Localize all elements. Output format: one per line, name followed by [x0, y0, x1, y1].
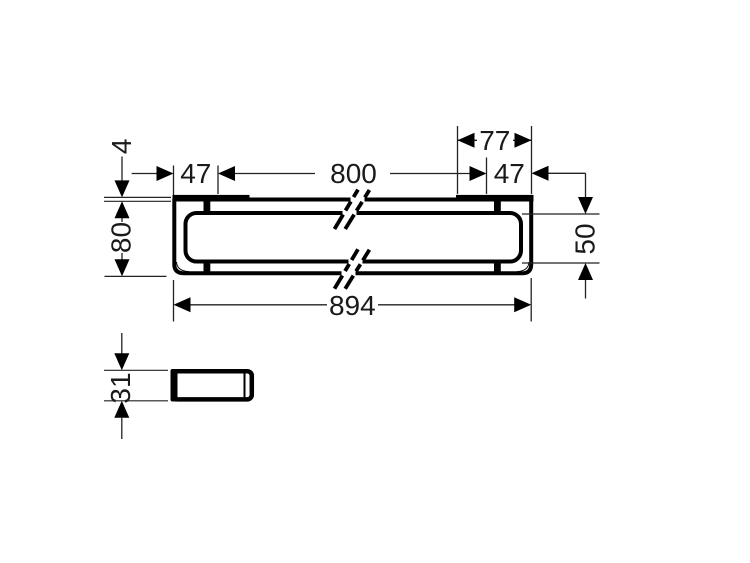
dim 31: lower tail line — [121, 418, 123, 439]
extension line E (77 left) — [457, 126, 459, 194]
side view: wall plate (left cap, filled) — [171, 369, 178, 402]
svg-text:4: 4 — [106, 139, 137, 155]
dim line 77 — [458, 139, 478, 141]
arrow right at D (77) — [515, 133, 532, 148]
dim 894: right extension line — [530, 278, 532, 322]
break gap whiteout upper rail — [343, 209, 357, 218]
break mark slashes lower — [335, 249, 359, 288]
extension line D (bar right edge, up) — [531, 126, 533, 194]
towel bar front view: mounting plate base strip — [173, 198, 534, 202]
dim 50: upper drop line — [585, 173, 587, 199]
bar body bottom-left fillet inner line — [177, 262, 190, 272]
dim 4: lower extension line (plate bottom) — [104, 200, 171, 202]
dim 31: upper extension line — [104, 369, 168, 371]
arrow left at B — [218, 166, 235, 181]
dim 50: down arrow to rail top — [578, 197, 593, 214]
dim 4: down arrow to plate top — [115, 180, 130, 197]
break mark slashes upper — [335, 190, 359, 229]
dim 894: line right segment — [378, 304, 515, 306]
arrow left at D — [532, 166, 549, 181]
break gap whiteout lower rail — [349, 258, 363, 267]
dim 80: line below upper arrow — [121, 218, 123, 222]
extension line A (bar left edge, up) — [173, 166, 175, 196]
bar body bottom-right fillet inner line — [517, 262, 529, 272]
break gap whiteout lower bottom — [342, 269, 356, 278]
svg-text:77: 77 — [479, 125, 510, 156]
dim line 800 left segment — [235, 173, 315, 175]
dim line 800 right segment — [390, 173, 471, 175]
left wall bracket post — [204, 199, 211, 274]
dim 50: upper extension line (rail top) — [522, 213, 600, 215]
dim 80: down arrow to bar bottom — [115, 259, 130, 276]
arrow left at E (77) — [458, 133, 475, 148]
svg-text:800: 800 — [330, 158, 377, 189]
dim 50: up arrow to rail bottom — [578, 263, 593, 280]
dim 50: lower tail line — [585, 280, 587, 299]
svg-text:47: 47 — [494, 158, 525, 189]
dim 80: up arrow at plate bottom — [115, 201, 130, 218]
arrow right at C — [470, 166, 487, 181]
dim line 47-right tail — [549, 172, 586, 174]
plate end cap right (77mm wide section) — [456, 195, 534, 202]
extension line C (right bracket centre) — [486, 158, 488, 195]
dim 4: upper extension line (plate top) — [104, 196, 171, 198]
bar body outer outline — [174, 199, 531, 273]
dim 31: down arrow to side-view top — [114, 353, 129, 370]
arrow right at A — [157, 166, 174, 181]
plate end cap left (77mm wide section) — [173, 195, 250, 202]
dim 31: upper tail line — [121, 333, 123, 355]
dim 31: up arrow to side-view bottom — [114, 401, 129, 418]
svg-text:80: 80 — [106, 222, 137, 253]
side view: body outline — [173, 371, 252, 399]
dim 894: left extension line — [173, 280, 175, 322]
dim 80: bottom extension line — [105, 275, 167, 277]
dim 31: lower extension line — [104, 400, 168, 402]
dim 80: line above lower arrow — [121, 253, 123, 261]
towel rail tube (rounded) — [186, 213, 522, 262]
break gap whiteout upper plate — [351, 194, 365, 203]
extension line B (left bracket centre) — [217, 166, 219, 195]
svg-text:894: 894 — [329, 290, 376, 321]
svg-text:47: 47 — [180, 158, 211, 189]
svg-text:50: 50 — [570, 223, 601, 254]
dim 894: left arrow — [174, 297, 191, 312]
side view: inner vertical line — [244, 371, 246, 400]
dim 4: line above upper arrow — [121, 157, 123, 183]
dim 50: lower extension line (rail bottom) — [522, 262, 600, 264]
svg-text:31: 31 — [105, 372, 136, 403]
dim 894: right arrow — [514, 297, 531, 312]
right wall bracket post — [494, 199, 501, 274]
dim line 47-left tail — [132, 173, 158, 175]
dim 894: line left segment — [191, 304, 328, 306]
